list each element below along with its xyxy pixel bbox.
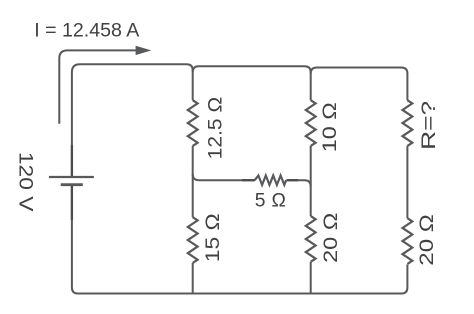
resistor R7 20 ohm zigzag (right) [403, 218, 413, 264]
wire: right lead of 5 ohm to branch 3 [287, 180, 311, 186]
wire: 5 ohm left lead (double-drawn darker) [242, 179, 255, 181]
wire: left wire below battery down to bottom-left corner and bottom wire [72, 186, 408, 294]
battery B1 short plate (negative) [61, 183, 83, 186]
wire: branch 3 lower lead to bottom wire [310, 262, 312, 294]
svg-text:I = 12.458 A: I = 12.458 A [34, 20, 140, 42]
svg-text:10 Ω: 10 Ω [320, 102, 341, 152]
wire: top wire of right loop (x=311 to x=407) [311, 68, 408, 101]
resistor R? unknown zigzag [403, 100, 413, 146]
resistor R3 10 ohm zigzag [306, 100, 316, 146]
svg-text:15 Ω: 15 Ω [203, 213, 224, 262]
wire: branch 3 between resistors (10 to 20 ohm) [310, 146, 312, 216]
wire: battery lower lead (double-drawn darker) [71, 186, 73, 220]
svg-text:120 V: 120 V [15, 152, 36, 212]
battery B1 long plate (positive) [49, 176, 94, 178]
svg-text:R=?: R=? [419, 101, 440, 150]
resistor R6 20 ohm zigzag (middle) [306, 216, 316, 262]
wire: branch 2 between resistors (12.5 to 15 ohm), with mid-wire junction [192, 146, 194, 217]
wire: 5 ohm right lead (double-drawn darker) [287, 179, 299, 181]
wire: middle horizontal wire with 5 ohm resistor, from branch 2 to branch 3 [193, 174, 255, 180]
wire: branch 2 lower lead to bottom wire [192, 263, 194, 294]
wire: top wire of left loop (battery to node at x=193) [72, 64, 193, 177]
svg-text:20 Ω: 20 Ω [417, 214, 438, 266]
svg-text:5 Ω: 5 Ω [255, 191, 286, 212]
svg-text:12.5 Ω: 12.5 Ω [206, 97, 227, 160]
resistor R2 12.5 ohm zigzag [188, 100, 198, 146]
wire: top wire of middle loop (x=193 to x=311) [193, 66, 311, 100]
wire: battery upper lead (double-drawn darker) [71, 145, 73, 176]
current arrowhead [136, 46, 152, 55]
svg-text:20 Ω: 20 Ω [321, 213, 342, 263]
resistor R5 15 ohm zigzag [188, 217, 198, 263]
wire: branch 4 between resistors (R? to 20 ohm) [406, 146, 408, 218]
resistor R4 5 ohm zigzag [255, 176, 286, 185]
wire: current arrow tail and shaft [59, 50, 137, 123]
